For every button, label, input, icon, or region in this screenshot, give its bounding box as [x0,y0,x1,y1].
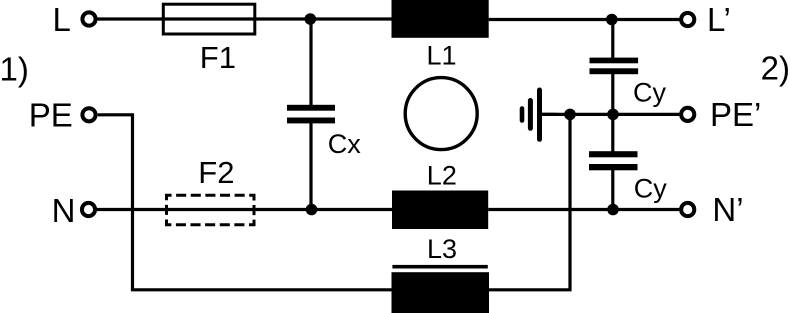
capacitor Cx plate top [287,105,335,111]
wire N row right (L2 to terminal N') [488,208,680,211]
capacitor Cx plate bottom [287,118,335,124]
svg-text:L3: L3 [427,234,457,264]
wire bottom row left (PE corner to L3) [131,288,392,291]
wire Cx branch lower [309,123,312,210]
svg-text:N’: N’ [712,191,743,228]
svg-text:L2: L2 [427,161,457,191]
junction at L' row / Cy top [606,14,618,26]
svg-text:1): 1) [0,50,29,87]
wire N row left (terminal N through F2 to L2) [97,208,393,211]
inductor L3 core line [392,265,487,269]
junction at fuse F1 output / Cx top [305,13,317,25]
capacitor Cy upper plate top [590,58,639,64]
terminal N' [681,203,694,216]
ground [522,90,556,139]
capacitor Cy lower plate bottom [589,164,638,170]
svg-text:L’: L’ [707,1,731,38]
inductor L3 [392,272,490,313]
toroid core circle [405,78,477,150]
inductor L1 [392,0,489,38]
svg-text:PE: PE [29,97,73,134]
wire Cy branch lower [611,170,614,210]
wire PE row left (terminal PE to corner) [98,115,133,290]
inductor L2 [392,191,488,230]
wire bottom row right (L3 to riser) [489,114,570,289]
svg-text:PE’: PE’ [710,96,761,133]
svg-text:Cx: Cx [328,129,361,159]
wire Cx branch upper [309,19,312,106]
wire PE' row (ground junction to terminal PE') [542,113,680,116]
svg-text:Cy: Cy [634,173,667,203]
svg-text:F1: F1 [200,40,236,75]
fuse F1 [163,4,255,34]
svg-text:Cy: Cy [633,78,666,108]
svg-text:N: N [52,192,76,229]
junction at N' row / Cy bottom [607,204,619,216]
capacitor Cy lower plate top [589,151,638,157]
svg-text:L1: L1 [427,41,457,71]
fuse F2 (optional, dashed) [167,195,255,225]
wire Cy branch middle [611,74,614,153]
wire L row left (terminal L to fuse F1 and on to L1) [98,17,392,20]
terminal L' [681,13,694,26]
svg-text:L: L [53,1,71,38]
wire Cy branch upper [611,20,614,59]
junction at N row / Cx bottom [306,204,318,216]
wire L row right (L1 to terminal L') [489,18,680,21]
svg-text:F2: F2 [198,155,234,190]
svg-text:2): 2) [761,50,790,87]
terminal PE [82,108,95,121]
terminal N [82,203,95,216]
junction at ground / PE' row [564,109,576,121]
terminal L [82,12,95,25]
capacitor Cy upper plate bottom [590,68,639,74]
junction at Cy mid / PE' row [607,109,619,121]
terminal PE' [681,108,694,121]
